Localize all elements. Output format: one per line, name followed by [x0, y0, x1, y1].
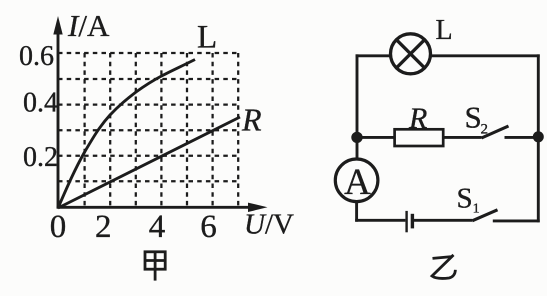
node: right junction dot — [533, 131, 544, 142]
svg-text:2: 2 — [481, 122, 489, 138]
svg-text:L: L — [197, 20, 217, 56]
wire: middle branch right — [505, 136, 539, 139]
svg-text:4: 4 — [149, 209, 166, 245]
svg-text:R: R — [241, 102, 262, 138]
x-axis arrowhead — [248, 203, 268, 212]
svg-text:2: 2 — [95, 209, 112, 245]
wire: right rail — [537, 54, 540, 222]
battery long plate — [405, 211, 407, 232]
svg-text:S: S — [457, 183, 473, 215]
svg-text:6: 6 — [200, 209, 217, 245]
wire: top left segment — [356, 54, 391, 57]
lamp L — [391, 34, 431, 74]
svg-text:A: A — [344, 162, 371, 203]
svg-text:R: R — [408, 102, 427, 135]
svg-text:0: 0 — [50, 209, 67, 245]
svg-text:0.4: 0.4 — [23, 88, 58, 119]
wire: bottom middle segment — [414, 219, 472, 222]
grid vertical dashed lines — [85, 53, 239, 207]
wire: top right segment — [431, 54, 540, 57]
svg-text:0.2: 0.2 — [23, 142, 58, 173]
wire: middle branch center — [443, 136, 481, 139]
caption 乙 (drawn) — [432, 255, 455, 278]
line R — [58, 117, 240, 208]
caption 甲 (drawn) — [145, 252, 165, 281]
svg-text:I/A: I/A — [67, 8, 110, 43]
grid horizontal dashed lines — [58, 53, 238, 181]
wire: bottom left segment — [355, 219, 405, 222]
y-axis arrowhead — [53, 16, 62, 35]
ammeter A — [335, 159, 378, 202]
wire: middle branch left — [357, 136, 395, 139]
y axis — [57, 32, 60, 209]
battery short plate — [411, 214, 414, 229]
switch S2 blade — [482, 126, 509, 138]
svg-text:U/V: U/V — [244, 209, 294, 241]
x axis — [57, 206, 252, 209]
node: left junction dot — [351, 132, 362, 143]
wire: bottom right segment — [493, 219, 540, 222]
svg-text:S: S — [465, 100, 482, 135]
curve L — [58, 60, 195, 209]
svg-text:L: L — [436, 15, 453, 46]
wire: below ammeter — [355, 202, 358, 222]
resistor R — [395, 129, 444, 146]
svg-text:1: 1 — [473, 202, 480, 217]
svg-text:0.6: 0.6 — [19, 41, 54, 72]
switch S1 blade — [472, 210, 497, 221]
wire: left rail top — [356, 54, 359, 159]
